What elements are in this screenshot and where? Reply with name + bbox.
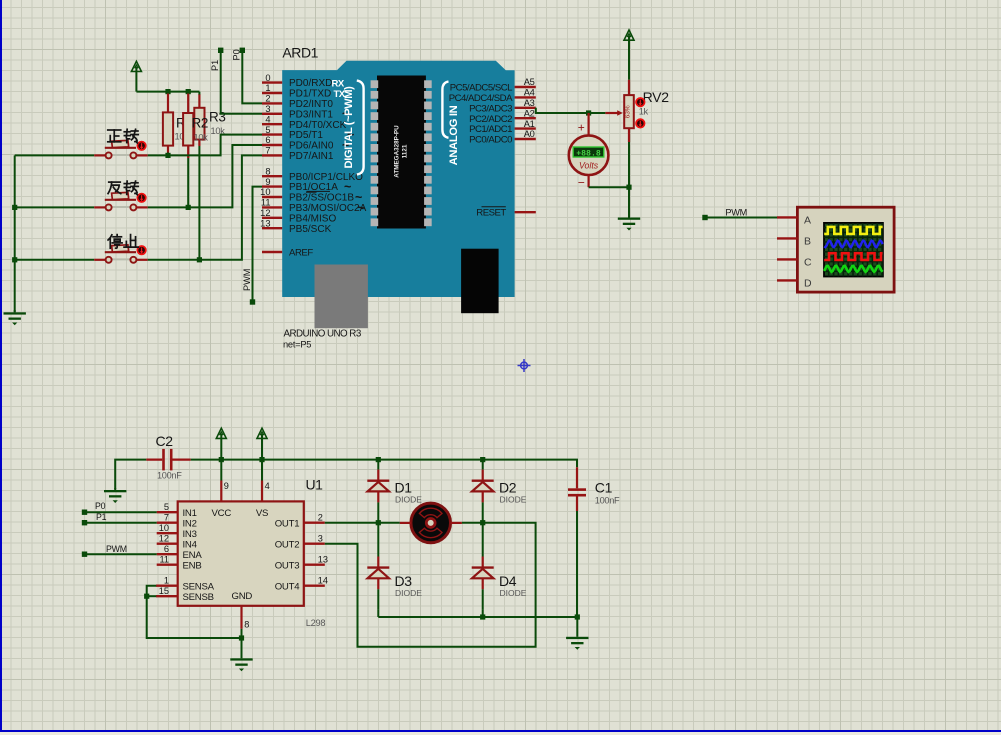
- svg-text:5: 5: [164, 502, 169, 512]
- svg-text:100nF: 100nF: [595, 496, 620, 506]
- wire to tingzhi button: [15, 259, 95, 261]
- diode D3: [367, 547, 389, 610]
- wire OUT1 to motor: [325, 522, 400, 524]
- label zhengzhuan: [108, 129, 139, 143]
- svg-text:0: 0: [265, 73, 270, 83]
- svg-text:PD4/T0/XCK: PD4/T0/XCK: [289, 120, 347, 131]
- svg-text:R2: R2: [192, 116, 208, 131]
- svg-text:C: C: [804, 256, 812, 268]
- label D2: [499, 480, 527, 505]
- wire P0 to PD2: [242, 53, 262, 104]
- power symbol VCC top-left: [131, 61, 141, 91]
- wire SENSA to SENSB tie: [147, 586, 242, 638]
- label net=P5: [283, 340, 311, 350]
- label U1: [306, 476, 324, 492]
- wire bottom rail: [378, 616, 577, 618]
- svg-text:11: 11: [261, 198, 271, 208]
- wire rail to C1: [262, 460, 577, 468]
- node junction R1 top: [165, 89, 170, 94]
- svg-text:PD0/RXD: PD0/RXD: [289, 78, 332, 89]
- wire VCC-VS rail: [221, 459, 262, 461]
- svg-text:VS: VS: [256, 508, 268, 519]
- svg-text:12: 12: [260, 208, 270, 218]
- svg-text:PC5/ADC5/SCL: PC5/ADC5/SCL: [450, 83, 513, 94]
- svg-text:L298: L298: [306, 618, 326, 628]
- svg-text:D3: D3: [395, 573, 413, 589]
- svg-text:A3: A3: [524, 98, 535, 108]
- label C1: [595, 479, 613, 495]
- svg-text:D4: D4: [499, 573, 517, 589]
- svg-text:10k: 10k: [194, 133, 209, 143]
- svg-text:DIGITAL (~PWM): DIGITAL (~PWM): [343, 86, 355, 169]
- svg-text:C1: C1: [595, 479, 613, 495]
- node junction VS rail: [259, 457, 264, 462]
- terminal P1 top: [210, 48, 223, 71]
- svg-text:1: 1: [164, 576, 169, 586]
- svg-text:11: 11: [159, 555, 169, 565]
- node junction left bus tingzhi: [12, 257, 17, 262]
- oscilloscope: [777, 207, 894, 292]
- wire PWM to ENA: [87, 553, 157, 555]
- svg-text:63%: 63%: [625, 105, 632, 118]
- svg-text:3: 3: [265, 104, 270, 114]
- svg-text:PWM: PWM: [242, 269, 252, 291]
- svg-text:PB4/MISO: PB4/MISO: [289, 213, 336, 224]
- svg-text:ARD1: ARD1: [282, 45, 318, 61]
- terminal P0 top: [232, 48, 245, 61]
- svg-text:VCC: VCC: [212, 508, 232, 519]
- wire PWM terminal to PB1: [253, 187, 263, 300]
- wire to zhengzhuan button: [15, 154, 95, 156]
- label tingzhi: [108, 235, 138, 249]
- svg-text:PD3/INT1: PD3/INT1: [289, 109, 333, 120]
- svg-text:+: +: [578, 121, 585, 135]
- svg-text:AREF: AREF: [289, 248, 313, 259]
- svg-text:−: −: [578, 176, 585, 190]
- svg-text:5: 5: [265, 125, 270, 135]
- wire D4 to rail: [482, 610, 484, 617]
- svg-text:P0: P0: [95, 501, 106, 511]
- svg-text:DIODE: DIODE: [500, 588, 527, 598]
- arduino ARD1 (Arduino UNO R3): [260, 61, 536, 329]
- svg-text:PWM: PWM: [106, 544, 127, 554]
- svg-text:OUT2: OUT2: [275, 539, 300, 550]
- pushbutton tingzhi (stop): [94, 245, 148, 263]
- svg-text:12: 12: [159, 534, 169, 544]
- resistor R2: [183, 94, 193, 159]
- svg-text:PC1/ADC1: PC1/ADC1: [469, 124, 512, 135]
- svg-text:6: 6: [265, 135, 270, 145]
- svg-text:IN1: IN1: [183, 508, 197, 519]
- label C2: [156, 433, 174, 449]
- node junction voltmeter plus: [586, 110, 591, 115]
- label D4: [499, 573, 527, 598]
- svg-text:ENB: ENB: [183, 560, 202, 571]
- label RV2: [643, 89, 670, 105]
- svg-text:D2: D2: [499, 480, 517, 496]
- wire to fanzhuan button: [15, 206, 95, 208]
- wire D3 to rail: [377, 610, 379, 617]
- sheet origin marker (blue crosshair): [518, 359, 531, 372]
- svg-text:PB2/SS/OC1B: PB2/SS/OC1B: [289, 193, 354, 204]
- actuator down RV2: [636, 119, 644, 127]
- svg-text:SENSA: SENSA: [183, 581, 215, 592]
- svg-text:1k: 1k: [639, 107, 649, 117]
- wire P0 to IN1: [87, 511, 157, 513]
- resistor R1: [163, 94, 173, 153]
- svg-text:9: 9: [224, 481, 229, 491]
- svg-text:10: 10: [159, 523, 169, 533]
- node junction C1 rail: [575, 614, 580, 619]
- power symbol U1 VS: [257, 428, 267, 459]
- svg-text:IN3: IN3: [183, 529, 197, 540]
- svg-text:4: 4: [265, 114, 270, 124]
- potentiometer RV2: [605, 80, 634, 142]
- wire R1 bottom to button row: [165, 153, 170, 159]
- svg-text:13: 13: [260, 218, 270, 228]
- wire motor right to bend: [325, 523, 536, 647]
- svg-text:ENA: ENA: [183, 550, 203, 561]
- wire R3 bottom to tingzhi row: [197, 146, 202, 262]
- svg-text:PB0/ICP1/CLKO: PB0/ICP1/CLKO: [289, 172, 363, 183]
- wire SENSB into tie: [144, 594, 156, 599]
- wire C2 to VCC rail: [191, 459, 222, 461]
- svg-text:1: 1: [265, 83, 270, 93]
- terminal P1 left: [82, 512, 107, 526]
- svg-text:14: 14: [318, 576, 328, 586]
- svg-text:PC4/ADC4/SDA: PC4/ADC4/SDA: [449, 93, 513, 104]
- svg-text:A0: A0: [524, 129, 535, 139]
- svg-text:P1: P1: [96, 512, 107, 522]
- wire VS pin stem: [261, 460, 263, 481]
- ground RV2: [618, 187, 640, 230]
- label D1: [395, 480, 423, 505]
- svg-text:2: 2: [265, 94, 270, 104]
- label fanzhuan: [108, 181, 138, 195]
- svg-text:100nF: 100nF: [157, 471, 182, 481]
- terminal PWM below arduino: [242, 269, 255, 305]
- power symbol RV2 top: [624, 30, 634, 80]
- svg-text:P1: P1: [210, 60, 220, 71]
- terminal PWM left: [82, 544, 127, 557]
- svg-text:A1: A1: [524, 119, 535, 129]
- diode D2: [472, 460, 494, 523]
- wire GND pin to ground: [239, 629, 244, 641]
- svg-text:OUT4: OUT4: [275, 581, 301, 592]
- svg-text:PD5/T1: PD5/T1: [289, 130, 323, 141]
- node junction left bus fanzhuan: [12, 205, 17, 210]
- capacitor C1: [568, 467, 586, 511]
- svg-text:PC2/ADC2: PC2/ADC2: [469, 114, 512, 125]
- wire P1 to PD3: [221, 53, 262, 114]
- svg-text:A2: A2: [524, 108, 535, 118]
- diode D4: [472, 547, 494, 610]
- wire PWM to scope channel A: [707, 217, 777, 219]
- wire tingzhi to PD7 pin: [148, 155, 262, 259]
- svg-text:OUT1: OUT1: [275, 518, 300, 529]
- node junction D2 top: [480, 457, 485, 462]
- svg-text:~: ~: [344, 180, 351, 194]
- svg-text:B: B: [804, 235, 811, 247]
- ground C2: [104, 488, 126, 503]
- svg-text:A: A: [804, 214, 811, 226]
- node junction VCC rail: [219, 457, 224, 462]
- svg-text:9: 9: [265, 177, 270, 187]
- svg-text:SENSB: SENSB: [183, 592, 214, 603]
- wire C2 to ground: [115, 460, 146, 489]
- label R2: [192, 116, 209, 143]
- label R3: [209, 110, 225, 137]
- wire RV2 bottom to ground rail: [628, 142, 630, 187]
- node junction D4 rail: [480, 614, 485, 619]
- svg-text:C2: C2: [156, 433, 174, 449]
- svg-text:OUT3: OUT3: [275, 560, 300, 571]
- label D3: [395, 573, 423, 598]
- svg-text:PB5/SCK: PB5/SCK: [289, 224, 332, 235]
- svg-text:8: 8: [244, 619, 249, 629]
- svg-text:PC0/ADC0: PC0/ADC0: [469, 135, 512, 146]
- svg-text:DIODE: DIODE: [500, 495, 527, 505]
- wire R3 top feed: [198, 92, 200, 95]
- wire power rail to resistors: [136, 91, 199, 93]
- terminal P0 left: [82, 501, 106, 515]
- svg-text:3: 3: [318, 534, 323, 544]
- motor: [400, 503, 462, 543]
- svg-text:PD7/AIN1: PD7/AIN1: [289, 151, 334, 162]
- svg-text:PD2/INT0: PD2/INT0: [289, 99, 333, 110]
- svg-text:2: 2: [318, 513, 323, 523]
- ground bottom rail: [566, 617, 588, 650]
- wire voltmeter minus: [589, 186, 629, 188]
- svg-text:~: ~: [357, 201, 364, 215]
- label RV2 value 1k: [639, 107, 649, 117]
- ground left bus: [4, 310, 26, 325]
- svg-text:7: 7: [265, 146, 270, 156]
- node junction RV2 ground: [626, 185, 631, 190]
- svg-text:1121: 1121: [402, 144, 409, 158]
- svg-text:A4: A4: [524, 88, 535, 98]
- svg-text:PB3/MOSI/OC2A: PB3/MOSI/OC2A: [289, 203, 367, 214]
- svg-text:7: 7: [164, 513, 169, 523]
- svg-text:ATMEGA328P-PU: ATMEGA328P-PU: [394, 125, 401, 178]
- svg-text:6: 6: [164, 544, 169, 554]
- svg-text:D: D: [804, 277, 812, 289]
- node junction motor right: [480, 520, 485, 525]
- label ARDUINO UNO R3: [284, 328, 362, 339]
- svg-text:RV2: RV2: [643, 89, 670, 105]
- svg-text:15: 15: [159, 586, 169, 596]
- label ARD1: [282, 45, 318, 61]
- diode D1: [367, 460, 389, 523]
- svg-text:A5: A5: [524, 77, 535, 87]
- svg-text:DIODE: DIODE: [395, 588, 422, 598]
- svg-text:IN4: IN4: [183, 539, 198, 550]
- wire VCC pin stem: [220, 460, 222, 481]
- svg-text:13: 13: [318, 555, 328, 565]
- svg-text:ARDUINO UNO R3: ARDUINO UNO R3: [284, 328, 362, 339]
- wire R2 bottom to fanzhuan row: [186, 158, 191, 210]
- svg-text:GND: GND: [232, 591, 253, 602]
- label C1 value: [595, 496, 620, 506]
- wire left bus vertical: [14, 155, 16, 312]
- voltmeter Volts: [569, 113, 609, 190]
- label C2 value: [157, 471, 182, 481]
- svg-text:ANALOG IN: ANALOG IN: [448, 105, 460, 165]
- pushbutton zhengzhuan (forward): [94, 140, 148, 158]
- wire fanzhuan to PD6 pin: [148, 145, 262, 207]
- svg-text:IN2: IN2: [183, 518, 197, 529]
- svg-text:+88.8: +88.8: [576, 150, 601, 159]
- svg-text:RESET: RESET: [476, 207, 506, 218]
- svg-text:DIODE: DIODE: [395, 495, 422, 505]
- wire P1 to IN2: [87, 522, 157, 524]
- wire zhengzhuan to PD5 pin: [148, 135, 262, 156]
- node junction motor left: [376, 520, 381, 525]
- svg-text:R3: R3: [209, 110, 225, 125]
- ground U1 GND: [230, 638, 252, 671]
- label R1 (hidden behind R2): [175, 116, 193, 142]
- label L298: [306, 618, 326, 628]
- pushbutton fanzhuan (reverse): [94, 192, 148, 210]
- wire D2 to D4: [482, 523, 484, 547]
- node junction R2 top: [186, 89, 191, 94]
- svg-text:PD6/AIN0: PD6/AIN0: [289, 141, 334, 152]
- wire D1 to D3: [377, 523, 379, 547]
- svg-text:10: 10: [260, 187, 270, 197]
- svg-text:Volts: Volts: [579, 160, 599, 170]
- capacitor C2: [146, 449, 191, 471]
- wire C1 to bottom rail: [576, 511, 578, 617]
- svg-text:4: 4: [265, 481, 270, 491]
- terminal PWM scope: [702, 208, 747, 221]
- svg-text:PD1/TXD: PD1/TXD: [289, 89, 331, 100]
- node junction D1 top: [376, 457, 381, 462]
- svg-text:P0: P0: [232, 49, 242, 60]
- svg-text:8: 8: [265, 166, 270, 176]
- svg-text:net=P5: net=P5: [283, 340, 311, 350]
- actuator up RV2: [636, 98, 644, 106]
- svg-text:U1: U1: [306, 476, 324, 492]
- svg-text:PWM: PWM: [725, 208, 747, 218]
- ic U1 L298: [156, 481, 328, 630]
- power symbol U1 VCC: [216, 428, 226, 459]
- wire A3 to RV2 wiper: [536, 108, 606, 113]
- svg-text:PC3/ADC3: PC3/ADC3: [469, 103, 512, 114]
- resistor R3: [194, 94, 204, 146]
- svg-text:D1: D1: [395, 480, 413, 496]
